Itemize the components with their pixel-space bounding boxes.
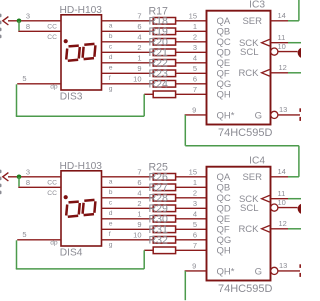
svg-text:15: 15 [189,167,197,176]
wire RCK pin 12 IC4 [271,228,289,230]
resistor R23 [153,81,175,88]
resistor R27 [153,195,175,202]
svg-text:13: 13 [279,261,287,270]
svg-text:8: 8 [26,22,30,31]
wire resistor to IC4 pin [176,197,207,199]
junction dot [17,175,22,180]
svg-text:12: 12 [279,219,287,228]
wire SCK pin 11 IC3 [271,42,289,44]
svg-text:QD: QD [217,204,231,215]
cut-off component at right edge (G) [299,264,301,268]
inversion bubble SCL pin 10 [271,204,278,211]
wire resistor to IC4 pin [176,228,207,230]
svg-text:QC: QC [217,193,231,204]
red pad at right edge (SCL) [298,204,308,214]
resistor R19 [153,39,175,46]
resistor R30 [153,226,175,233]
svg-text:HD-H103: HD-H103 [60,5,103,16]
svg-text:74HC595D: 74HC595D [218,127,272,139]
wire cascade QH* IC3 down [184,115,186,146]
resistor R25 [153,174,175,181]
svg-text:dp: dp [50,240,58,247]
wire resistor to IC3 pin [176,30,207,32]
inversion bubble G pin 13 [271,267,278,274]
svg-text:IC3: IC3 [249,0,265,11]
svg-text:DIS3: DIS3 [60,92,83,103]
resistor R29 [153,216,175,223]
svg-text:14: 14 [278,167,286,176]
svg-text:QH*: QH* [217,266,235,277]
resistor R24 [153,91,175,98]
svg-text:14: 14 [278,11,286,20]
svg-text:5: 5 [193,220,197,229]
wire SCL pin 10 IC3 [278,51,298,53]
svg-text:CC: CC [47,180,57,187]
wire dp-return to resistor [144,93,153,95]
wire pin 8 DIS3 [18,30,61,32]
svg-text:4: 4 [193,53,197,62]
svg-text:e: e [109,220,113,227]
red pad at right edge (SCL) [298,48,308,58]
cut-off component at right edge (G) [299,108,301,112]
wire DIS4 segment b to resistor [102,186,154,188]
resistor R31 [153,237,175,244]
svg-text:4: 4 [193,209,197,218]
wire resistor to IC3 pin [176,41,207,43]
svg-text:DIS4: DIS4 [60,248,83,259]
wire resistor to IC4 pin [176,207,207,209]
svg-text:HD-H103: HD-H103 [60,161,103,172]
wire cascade QH* IC4 down to edge [184,271,186,300]
wire DIS4 segment f to resistor [102,228,154,230]
svg-text:dp: dp [50,84,58,91]
7-segment display DIS3 (HD-H103) [22,5,141,102]
wire pin 8 DIS4 [18,186,61,188]
svg-text:12: 12 [279,63,287,72]
svg-text:f: f [109,231,111,238]
svg-text:d: d [109,54,113,61]
svg-text:10: 10 [133,75,141,84]
wire DIS3 segment c to resistor [102,41,154,43]
svg-text:7: 7 [193,85,197,94]
resistor R26 [153,184,175,191]
wire junction to pin 8 [18,21,20,31]
svg-text:5: 5 [22,230,26,239]
wire dp net horizontal [16,115,144,117]
svg-text:CC: CC [47,34,57,41]
svg-text:2: 2 [137,199,141,208]
svg-text:RCK: RCK [238,224,259,235]
svg-text:SCL: SCL [240,47,258,58]
wire DIS3 segment d to resistor [102,51,154,53]
wire resistor to IC4 pin [176,239,207,241]
wire dp-return to resistor [144,249,153,251]
wire dp net horizontal [16,268,144,270]
svg-text:d: d [109,210,113,217]
wire pin 5 dp DIS4 [17,239,61,241]
svg-text:74HC595D: 74HC595D [218,283,272,295]
svg-text:b: b [109,33,113,40]
svg-text:5: 5 [193,64,197,73]
shift register IC3 74HC595D [189,0,288,139]
svg-text:9: 9 [137,64,141,73]
svg-text:g: g [109,241,113,248]
svg-text:9: 9 [137,220,141,229]
svg-text:SER: SER [242,172,262,183]
wire cascade down to IC4 SER [298,146,300,177]
wire DIS4 segment g to resistor [102,239,154,241]
resistor R28 [153,205,175,212]
wire dp net vertical right [143,94,145,116]
wire resistor to IC3 pin [176,83,207,85]
svg-text:4: 4 [137,33,141,42]
svg-text:QG: QG [217,79,232,90]
svg-text:QF: QF [217,225,230,236]
wire DIS4 segment d to resistor [102,207,154,209]
wire cascade QH* IC3 across [185,145,299,147]
svg-text:11: 11 [278,189,286,198]
wire resistor to IC3 pin [176,62,207,64]
svg-text:G: G [255,266,262,277]
svg-text:CC: CC [47,190,57,197]
net arrow marker left of DIS4 [3,173,9,181]
inversion bubble G pin 13 [271,111,278,118]
wire QH* pin 9 IC4 [185,270,207,272]
cut-off net label at left edge [0,14,2,39]
resistor R32 [153,247,175,254]
svg-text:QH: QH [217,246,231,257]
svg-text:QG: QG [217,235,232,246]
svg-text:SCL: SCL [240,203,258,214]
svg-text:6: 6 [193,74,197,83]
wire SER pin 14 IC3 [271,20,289,22]
shift register IC4 74HC595D [189,156,288,295]
wire resistor to IC4 pin [176,218,207,220]
wire dp net vertical left [16,240,18,269]
wire SER pin 14 IC4 [271,176,289,178]
svg-text:QB: QB [217,183,231,194]
wire pin 5 dp DIS3 [17,83,61,85]
svg-text:R24: R24 [149,78,169,90]
wire resistor to IC3 pin [176,72,207,74]
wire resistor to IC3 pin [176,20,207,22]
svg-text:QC: QC [217,37,231,48]
svg-text:a: a [109,22,113,29]
net arrow marker left of DIS3 [3,17,9,25]
svg-text:3: 3 [193,43,197,52]
svg-text:1: 1 [193,22,197,31]
clock mark RCK [262,70,270,77]
clock mark SCK [262,195,270,202]
svg-text:1: 1 [137,210,141,219]
wire DIS3 segment a to resistor [102,20,154,22]
clock mark SCK [262,39,270,46]
svg-text:1: 1 [193,178,197,187]
svg-text:6: 6 [193,230,197,239]
resistor R17 [153,18,175,25]
svg-text:2: 2 [137,43,141,52]
wire resistor to IC4 pin [176,176,207,178]
svg-text:CC: CC [47,24,57,31]
resistor R22 [153,70,175,77]
svg-text:3: 3 [26,168,30,177]
svg-text:QE: QE [217,214,231,225]
wire junction to pin 8 [18,177,20,187]
svg-text:9: 9 [192,106,196,115]
wire G pin 13 IC3 [278,114,300,116]
svg-text:IC4: IC4 [249,156,265,167]
svg-text:b: b [109,189,113,196]
resistor R21 [153,60,175,67]
wire QH* pin 9 IC3 [185,114,207,116]
resistor R18 [153,28,175,35]
svg-text:7: 7 [193,241,197,250]
svg-text:g: g [109,85,113,92]
inversion bubble SCL pin 10 [271,48,278,55]
wire SCL pin 10 IC4 [278,207,298,209]
svg-text:15: 15 [189,11,197,20]
cut-off net label at left edge [0,170,2,195]
svg-text:RCK: RCK [238,68,259,79]
svg-text:9: 9 [192,262,196,271]
svg-text:3: 3 [26,12,30,21]
wire DIS3 segment b to resistor [102,30,154,32]
clock mark RCK [262,226,270,233]
svg-text:QA: QA [217,172,231,183]
svg-text:G: G [255,110,262,121]
svg-text:SER: SER [242,16,262,27]
wire SCK pin 11 IC4 [271,198,289,200]
svg-text:f: f [109,75,111,82]
svg-text:QA: QA [217,16,231,27]
wire resistor to IC3 pin [176,93,207,95]
svg-text:10: 10 [133,231,141,240]
svg-text:6: 6 [137,22,141,31]
svg-text:QH: QH [217,90,231,101]
wire DIS3 segment g to resistor [102,83,154,85]
svg-text:QE: QE [217,58,231,69]
svg-text:R32: R32 [149,234,169,246]
svg-text:4: 4 [137,189,141,198]
svg-text:1: 1 [137,54,141,63]
7-segment display DIS4 (HD-H103) [22,161,141,258]
wire G pin 13 IC4 [278,270,300,272]
resistor R20 [153,49,175,56]
svg-text:QB: QB [217,27,231,38]
svg-text:QH*: QH* [217,110,235,121]
svg-text:2: 2 [193,32,197,41]
wire dp net vertical left [16,84,18,116]
wire DIS4 segment c to resistor [102,197,154,199]
wire DIS4 segment a to resistor [102,176,154,178]
svg-text:7: 7 [137,168,141,177]
wire DIS4 segment e to resistor [102,218,154,220]
wire pin 3 DIS3 [8,20,61,22]
svg-text:QF: QF [217,69,230,80]
svg-text:7: 7 [137,12,141,21]
wire pin 3 DIS4 [8,176,61,178]
junction dot [17,19,22,24]
wire serial-in from above to IC3 SER [298,0,300,21]
svg-text:5: 5 [22,74,26,83]
wire DIS3 segment e to resistor [102,62,154,64]
wire resistor to IC4 pin [176,249,207,251]
svg-text:8: 8 [26,178,30,187]
wire DIS3 segment f to resistor [102,72,154,74]
svg-text:a: a [109,178,113,185]
wire RCK pin 12 IC3 [271,72,289,74]
wire resistor to IC3 pin [176,51,207,53]
svg-text:2: 2 [193,188,197,197]
svg-text:11: 11 [278,33,286,42]
wire dp net vertical right [143,250,145,269]
wire resistor to IC4 pin [176,186,207,188]
svg-text:e: e [109,64,113,71]
svg-text:13: 13 [279,105,287,114]
svg-text:6: 6 [137,178,141,187]
svg-text:3: 3 [193,199,197,208]
svg-text:QD: QD [217,48,231,59]
